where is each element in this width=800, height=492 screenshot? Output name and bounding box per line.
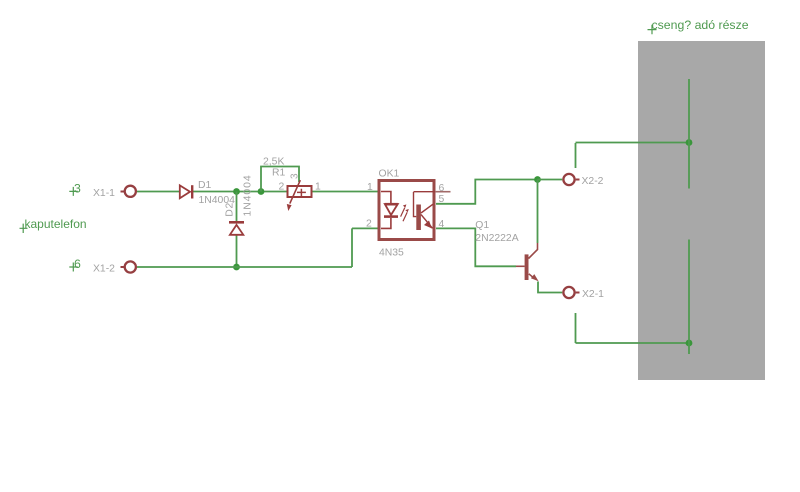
connector pin X2-2 <box>563 174 603 187</box>
wire vertical in shaded block (top) <box>688 79 690 189</box>
OK1 pin 6 stub <box>435 191 451 193</box>
transistor Q1 <box>475 220 538 281</box>
svg-text:2N2222A: 2N2222A <box>475 233 518 244</box>
wire X2-1 lower branch into shaded block <box>576 313 690 343</box>
OK1 internal LED <box>381 192 391 205</box>
wire vertical in shaded block (bottom) <box>688 240 690 355</box>
connector pin X1-1 <box>93 186 136 199</box>
svg-text:X1-1: X1-1 <box>93 188 115 199</box>
connector pin X1-2 <box>93 261 136 274</box>
svg-text:1: 1 <box>315 182 321 193</box>
optocoupler OK1 <box>366 169 451 259</box>
wire R1 wiper loop <box>261 167 299 192</box>
OK1 phototransistor base line <box>414 191 436 193</box>
junction on X1-1 rail at R1 wiper tap <box>258 188 265 195</box>
svg-text:3: 3 <box>74 182 81 196</box>
svg-text:X2-2: X2-2 <box>582 176 604 187</box>
wire OK1 pin 5 to collector node <box>436 180 538 204</box>
Q1 base bar <box>525 254 529 280</box>
junction on X1-2 rail at D2 <box>233 264 240 271</box>
wire D2 branch vertical <box>236 192 238 268</box>
connector pin X2-1 <box>563 287 604 300</box>
wire node to X2-2 pin <box>538 179 563 181</box>
diode D1 <box>180 180 235 206</box>
net label "3" at X1-1 <box>69 182 81 196</box>
svg-text:4: 4 <box>439 219 445 230</box>
svg-text:D1: D1 <box>198 180 212 191</box>
OK1 photon arrows <box>401 208 405 217</box>
svg-text:X1-2: X1-2 <box>93 264 115 275</box>
wire Q1 collector vertical <box>537 180 539 244</box>
svg-text:1N4004: 1N4004 <box>243 174 254 216</box>
wire Q1 emitter to X2-1 pin <box>538 282 562 293</box>
svg-text:D2: D2 <box>225 202 236 217</box>
wire X1-2 rail to OK1 pin 2 <box>137 228 378 267</box>
svg-text:Q1: Q1 <box>475 220 489 231</box>
svg-text:cseng? adó része: cseng? adó része <box>652 18 749 32</box>
svg-text:3: 3 <box>290 173 301 179</box>
svg-text:R1: R1 <box>272 168 286 179</box>
net label "cseng? adó része" with origin cross <box>648 18 749 34</box>
svg-text:2: 2 <box>279 182 285 193</box>
OK1 phototransistor emitter line <box>421 215 433 229</box>
Q1 emitter lead with arrow <box>529 274 534 278</box>
wire R1 pin 1 to OK1 pin 1 <box>313 191 379 193</box>
svg-text:kaputelefon: kaputelefon <box>25 217 87 231</box>
junction at Q1 collector / X2-2 node <box>534 176 541 183</box>
wire X1-1 to D1 anode <box>137 191 180 193</box>
net label "kaputelefon" with origin cross <box>20 217 87 233</box>
OK1 phototransistor collector line <box>421 204 434 213</box>
Q1 collector lead <box>529 243 538 259</box>
wire X2-2 upper branch into shaded block <box>576 143 690 169</box>
svg-text:5: 5 <box>439 194 445 205</box>
trimmer resistor R1 <box>263 157 321 212</box>
shaded block (cseng? ado resze region) <box>638 41 765 380</box>
diode D2 <box>225 174 254 234</box>
junction in shaded block (bottom) <box>686 340 693 347</box>
svg-text:4N35: 4N35 <box>379 248 404 259</box>
junction on X1-1 rail at D2 branch <box>233 188 240 195</box>
svg-text:2: 2 <box>366 219 372 230</box>
junction in shaded block (top) <box>686 139 693 146</box>
net label "6" at X1-2 <box>69 257 81 271</box>
wire D1 cathode to R1 pin 2 <box>193 191 287 193</box>
svg-text:6: 6 <box>74 257 81 271</box>
Q1 base pin stub <box>516 265 525 267</box>
svg-text:X2-1: X2-1 <box>582 289 604 300</box>
svg-text:OK1: OK1 <box>379 169 400 180</box>
svg-text:2,5K: 2,5K <box>263 157 284 168</box>
OK1 phototransistor bar <box>416 205 421 231</box>
svg-text:1: 1 <box>367 182 373 193</box>
wire OK1 pin 4 to Q1 base <box>436 228 516 266</box>
